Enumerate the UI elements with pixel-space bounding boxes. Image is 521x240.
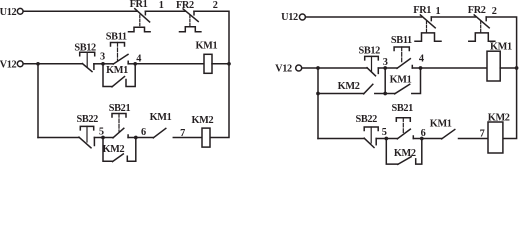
svg-text:2: 2 (213, 0, 218, 11)
svg-text:5: 5 (99, 126, 104, 137)
svg-text:KM1: KM1 (490, 42, 512, 53)
svg-text:FR2: FR2 (176, 0, 194, 11)
svg-text:KM1: KM1 (390, 74, 412, 85)
svg-text:1: 1 (159, 0, 164, 11)
svg-text:SB12: SB12 (358, 46, 380, 57)
svg-text:V12: V12 (275, 63, 292, 74)
svg-text:U12: U12 (0, 7, 16, 18)
svg-text:FR1: FR1 (413, 5, 431, 16)
svg-text:SB12: SB12 (74, 42, 96, 53)
svg-text:V12: V12 (0, 59, 16, 70)
svg-text:4: 4 (419, 54, 424, 65)
svg-text:KM1: KM1 (430, 119, 452, 130)
svg-text:SB22: SB22 (355, 114, 377, 125)
svg-text:3: 3 (100, 51, 105, 62)
svg-text:KM2: KM2 (102, 144, 124, 155)
svg-text:4: 4 (136, 53, 141, 64)
svg-text:U12: U12 (281, 12, 298, 23)
svg-text:6: 6 (421, 128, 426, 139)
svg-text:FR2: FR2 (468, 5, 486, 16)
svg-text:SB11: SB11 (391, 35, 412, 46)
svg-text:3: 3 (383, 57, 388, 68)
svg-text:KM2: KM2 (394, 148, 416, 159)
svg-text:5: 5 (382, 127, 387, 138)
svg-text:KM1: KM1 (150, 112, 172, 123)
svg-text:1: 1 (435, 6, 440, 17)
svg-text:KM2: KM2 (338, 81, 360, 92)
svg-text:KM1: KM1 (195, 40, 217, 51)
svg-text:KM2: KM2 (191, 115, 213, 126)
svg-text:7: 7 (180, 128, 185, 139)
svg-text:FR1: FR1 (130, 0, 148, 10)
svg-text:SB22: SB22 (76, 114, 98, 125)
svg-text:KM2: KM2 (488, 112, 510, 123)
svg-text:SB21: SB21 (391, 103, 413, 114)
svg-text:SB11: SB11 (106, 31, 127, 42)
svg-text:6: 6 (141, 127, 146, 138)
svg-text:2: 2 (492, 6, 497, 17)
svg-text:KM1: KM1 (106, 65, 128, 76)
svg-text:7: 7 (480, 128, 485, 139)
svg-text:SB21: SB21 (109, 103, 131, 114)
